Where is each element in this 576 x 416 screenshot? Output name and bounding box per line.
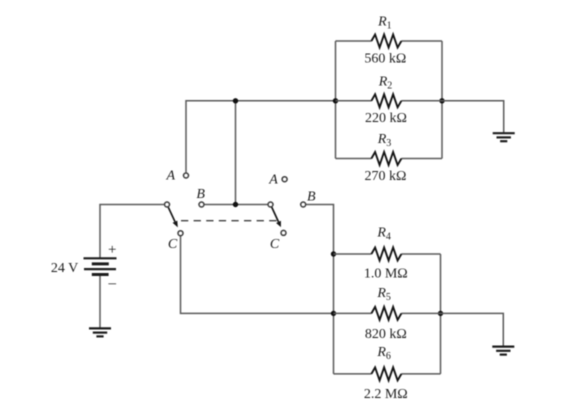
wire: battery negative to ground (99, 275, 101, 328)
wire: middle riser to switch row (235, 101, 237, 205)
node: bottom bank left junction R5 (331, 311, 336, 316)
switch SW1 terminal A (184, 173, 189, 178)
svg-text:A: A (268, 173, 278, 188)
node: bottom bank left junction R4 (331, 251, 336, 256)
svg-text:1.0 MΩ: 1.0 MΩ (364, 267, 408, 282)
svg-text:820 kΩ: 820 kΩ (365, 327, 407, 342)
resistor R3 (371, 152, 401, 165)
ground (battery) (89, 328, 111, 336)
node: junction dot on switch row (233, 202, 238, 207)
wire: switch2 B right and down (bottom bank left bus) (306, 205, 333, 374)
switch SW2 terminal B (301, 202, 306, 207)
svg-text:A: A (165, 168, 175, 183)
wire: switch1 C down and right to bottom bank (181, 236, 334, 313)
resistor R3 branch wires (336, 158, 372, 160)
top bank left bus (335, 41, 337, 159)
dashed mechanical link between switch arms (181, 220, 278, 222)
resistor R2 (371, 94, 401, 107)
switch SW1 arm with arrow (168, 207, 178, 227)
resistor R6 (371, 367, 401, 380)
bottom bank right bus (440, 254, 442, 374)
resistor R1 branch wires (336, 40, 372, 42)
svg-text:24 V: 24 V (51, 261, 78, 276)
switch SW2 terminal C (281, 230, 286, 235)
svg-text:C: C (270, 237, 280, 252)
node: bottom bank right junction (438, 311, 443, 316)
switch SW1 terminal B (199, 202, 204, 207)
node: top bank left junction (333, 98, 338, 103)
svg-text:C: C (168, 237, 178, 252)
node: top bank right junction (439, 98, 444, 103)
resistor R5 (371, 307, 401, 320)
svg-text:R3: R3 (377, 132, 392, 149)
svg-text:B: B (307, 190, 316, 205)
wire: battery positive to switch 1 pole (100, 205, 164, 259)
battery 24 V (84, 258, 117, 274)
ground (bottom right) (492, 347, 514, 355)
svg-text:–: – (107, 276, 116, 292)
svg-text:560 kΩ: 560 kΩ (364, 52, 406, 67)
wire: top bank to ground (442, 101, 504, 133)
svg-text:R1: R1 (377, 14, 392, 31)
svg-text:B: B (196, 187, 205, 202)
switch SW1 pole terminal (165, 202, 170, 207)
switch SW1 terminal C (178, 231, 183, 236)
resistor R6 branch wires (334, 373, 372, 375)
resistor R4 branch wires (334, 253, 372, 255)
switch SW2 terminal A (282, 177, 287, 182)
svg-text:220 kΩ: 220 kΩ (365, 111, 407, 126)
wire: bottom bank to ground (441, 313, 504, 346)
switch SW2 pole terminal (268, 202, 273, 207)
svg-text:R4: R4 (376, 225, 391, 242)
svg-text:R6: R6 (376, 345, 391, 362)
ground (top right) (493, 133, 515, 141)
resistor R1 (371, 35, 401, 48)
resistor R4 (371, 248, 401, 261)
node: junction dot on top feed (233, 98, 238, 103)
svg-text:R5: R5 (376, 286, 391, 303)
top bank right bus (441, 41, 443, 159)
svg-text:+: + (108, 242, 116, 258)
wire: switch1 A riser and top feed to top bank (186, 101, 336, 173)
svg-text:2.2 MΩ: 2.2 MΩ (364, 387, 408, 402)
svg-text:R2: R2 (378, 74, 393, 91)
wire: switch1 B to switch2 pole (205, 204, 268, 206)
resistor R2 branch wires (336, 100, 372, 102)
svg-text:270 kΩ: 270 kΩ (364, 169, 406, 184)
switch SW2 arm with arrow (272, 207, 281, 227)
resistor R5 branch wires (334, 312, 372, 314)
